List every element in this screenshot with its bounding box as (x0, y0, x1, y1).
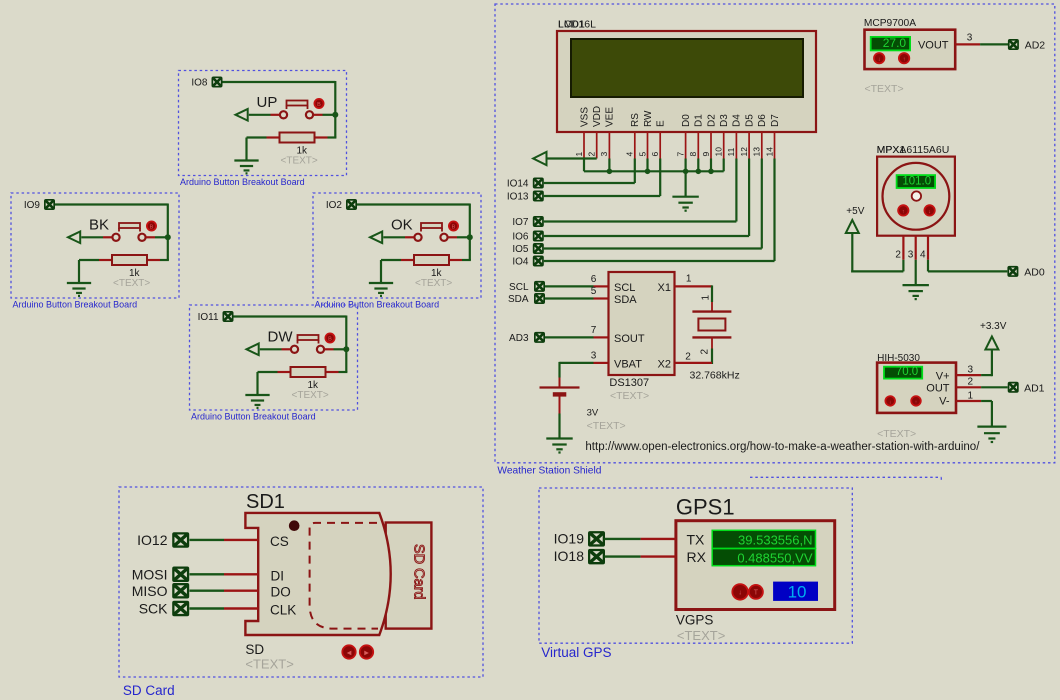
svg-text:3: 3 (967, 33, 973, 44)
svg-text:1: 1 (574, 152, 584, 157)
svg-text:<TEXT>: <TEXT> (677, 628, 725, 643)
svg-text:OUT: OUT (926, 383, 950, 395)
svg-text:D5: D5 (744, 114, 755, 127)
svg-text:▶: ▶ (364, 650, 369, 656)
svg-text:V-: V- (939, 396, 950, 408)
svg-text:8: 8 (688, 152, 698, 157)
svg-text:13: 13 (752, 147, 762, 157)
svg-text:D6: D6 (757, 114, 768, 127)
svg-text:SD1: SD1 (246, 491, 285, 513)
svg-text:IO18: IO18 (554, 548, 585, 564)
svg-text:CLK: CLK (270, 603, 296, 618)
svg-text:0.488550,VV: 0.488550,VV (737, 550, 813, 565)
svg-text:+5V: +5V (846, 206, 864, 217)
svg-text:IO7: IO7 (512, 217, 529, 228)
svg-text:VOUT: VOUT (918, 39, 949, 51)
svg-text:SDA: SDA (614, 294, 637, 306)
svg-text:IO6: IO6 (512, 232, 529, 243)
svg-text:AD0: AD0 (1024, 267, 1045, 279)
svg-text:↓: ↓ (928, 209, 931, 215)
svg-text:TX: TX (687, 532, 706, 548)
svg-text:VDD: VDD (592, 106, 603, 127)
svg-text:IO13: IO13 (507, 192, 529, 203)
svg-text:B: B (317, 102, 321, 108)
svg-text:X2: X2 (658, 358, 671, 370)
svg-text:↑: ↑ (915, 399, 918, 405)
svg-text:<TEXT>: <TEXT> (245, 657, 293, 672)
svg-text:Arduino Button Breakout Board: Arduino Button Breakout Board (180, 177, 305, 187)
svg-text:↑: ↑ (903, 57, 906, 63)
svg-text:<TEXT>: <TEXT> (587, 420, 626, 432)
svg-text:↑: ↑ (902, 209, 905, 215)
svg-text:10: 10 (788, 583, 807, 602)
svg-text:IO11: IO11 (198, 312, 219, 323)
svg-text:IO5: IO5 (512, 244, 529, 255)
svg-text:101.0: 101.0 (902, 176, 931, 188)
svg-text:MCP9700A: MCP9700A (864, 18, 916, 29)
svg-text:D0: D0 (681, 114, 692, 127)
svg-text:D2: D2 (706, 114, 717, 127)
svg-text:RS: RS (630, 113, 641, 127)
svg-text:BK: BK (89, 217, 109, 234)
svg-text:IO4: IO4 (512, 257, 529, 268)
svg-text:<TEXT>: <TEXT> (113, 278, 150, 289)
svg-text:Arduino Button Breakout Board: Arduino Button Breakout Board (13, 300, 138, 310)
svg-text:B: B (150, 224, 154, 230)
svg-text:2: 2 (699, 349, 710, 355)
svg-text:7: 7 (675, 152, 685, 157)
svg-text:DW: DW (268, 329, 294, 346)
svg-text:SDA: SDA (508, 294, 529, 305)
svg-text:RW: RW (643, 110, 654, 127)
svg-text:V+: V+ (936, 370, 950, 382)
svg-text:SCK: SCK (139, 601, 168, 617)
svg-text:X1: X1 (658, 282, 671, 294)
svg-text:<TEXT>: <TEXT> (865, 83, 904, 95)
svg-text:↓: ↓ (889, 399, 892, 405)
svg-text:1: 1 (686, 274, 692, 285)
svg-text:D7: D7 (770, 114, 781, 127)
svg-text:2: 2 (968, 377, 974, 388)
svg-text:IO19: IO19 (554, 531, 585, 547)
svg-text:VSS: VSS (579, 107, 590, 127)
svg-text:14: 14 (764, 147, 774, 157)
svg-text:1: 1 (701, 295, 712, 301)
svg-text:+3.3V: +3.3V (980, 321, 1007, 332)
svg-text:MOSI: MOSI (132, 567, 168, 583)
svg-text:DI: DI (271, 569, 285, 584)
svg-text:AD1: AD1 (1024, 383, 1045, 395)
svg-text:LM016L: LM016L (558, 19, 596, 31)
svg-text:CS: CS (270, 534, 289, 549)
svg-text:DS1307: DS1307 (609, 377, 649, 389)
svg-text:<TEXT>: <TEXT> (292, 390, 329, 401)
svg-text:3: 3 (908, 250, 914, 261)
svg-text:IO8: IO8 (191, 78, 208, 89)
svg-text:27.0: 27.0 (883, 36, 907, 50)
svg-text:1: 1 (968, 390, 974, 401)
svg-text:MISO: MISO (132, 583, 168, 599)
svg-text:↓: ↓ (878, 57, 881, 63)
svg-text:IO9: IO9 (24, 200, 41, 211)
svg-text:IO2: IO2 (326, 200, 343, 211)
svg-text:32.768kHz: 32.768kHz (690, 369, 740, 381)
svg-text:SD Card: SD Card (411, 544, 427, 600)
svg-text:SCL: SCL (509, 282, 529, 293)
svg-text:SCL: SCL (614, 282, 635, 294)
svg-text:7: 7 (591, 325, 597, 336)
svg-text:Virtual GPS: Virtual GPS (541, 645, 611, 660)
svg-text:◀: ◀ (347, 650, 352, 656)
svg-text:70.0: 70.0 (896, 366, 918, 378)
svg-text:<TEXT>: <TEXT> (877, 428, 916, 440)
svg-text:9: 9 (701, 152, 711, 157)
svg-text:T: T (754, 589, 759, 596)
svg-text:3: 3 (591, 350, 597, 361)
svg-text:SD Card: SD Card (123, 683, 175, 698)
svg-text:OK: OK (391, 217, 413, 234)
svg-text:10: 10 (714, 147, 724, 157)
svg-text:2: 2 (587, 152, 597, 157)
svg-text:11: 11 (726, 147, 736, 156)
svg-text:SOUT: SOUT (614, 333, 645, 345)
svg-text:IO12: IO12 (137, 532, 168, 548)
svg-text:UP: UP (257, 94, 278, 111)
svg-text:D4: D4 (732, 114, 743, 127)
svg-text:Weather Station Shield: Weather Station Shield (497, 466, 601, 477)
svg-text:39.533556,N: 39.533556,N (738, 533, 812, 548)
svg-text:<TEXT>: <TEXT> (610, 390, 649, 402)
svg-text:6: 6 (650, 152, 660, 157)
svg-text:AD3: AD3 (509, 333, 529, 344)
svg-text:12: 12 (739, 147, 749, 157)
svg-text:5: 5 (591, 286, 597, 297)
svg-text:↓: ↓ (738, 589, 742, 596)
svg-text:2: 2 (895, 250, 901, 261)
svg-text:VBAT: VBAT (614, 358, 642, 370)
svg-text:D1: D1 (694, 114, 705, 127)
svg-text:DO: DO (271, 585, 291, 600)
svg-text:GPS1: GPS1 (676, 495, 735, 520)
svg-text:MPX1: MPX1 (877, 144, 906, 156)
svg-text:<TEXT>: <TEXT> (281, 156, 318, 167)
svg-text:E: E (656, 120, 667, 127)
svg-text:D3: D3 (719, 114, 730, 127)
svg-text:SD: SD (245, 642, 264, 657)
svg-text:B: B (328, 336, 332, 342)
svg-text:4: 4 (625, 152, 635, 157)
svg-text:<TEXT>: <TEXT> (415, 278, 452, 289)
svg-text:4: 4 (920, 250, 926, 261)
svg-text:6: 6 (591, 274, 597, 285)
svg-text:3V: 3V (587, 408, 599, 419)
svg-text:B: B (452, 224, 456, 230)
svg-text:http://www.open-electronics.or: http://www.open-electronics.org/how-to-m… (585, 441, 980, 453)
svg-text:5: 5 (637, 152, 647, 157)
svg-text:IO14: IO14 (507, 179, 529, 190)
svg-text:RX: RX (687, 549, 707, 565)
svg-text:3: 3 (968, 365, 974, 376)
svg-text:AD2: AD2 (1025, 40, 1046, 52)
svg-text:VEE: VEE (605, 107, 616, 127)
svg-text:VGPS: VGPS (676, 613, 714, 628)
svg-text:2: 2 (685, 352, 691, 363)
svg-text:Arduino Button Breakout Board: Arduino Button Breakout Board (191, 412, 316, 422)
svg-text:3: 3 (599, 152, 609, 157)
